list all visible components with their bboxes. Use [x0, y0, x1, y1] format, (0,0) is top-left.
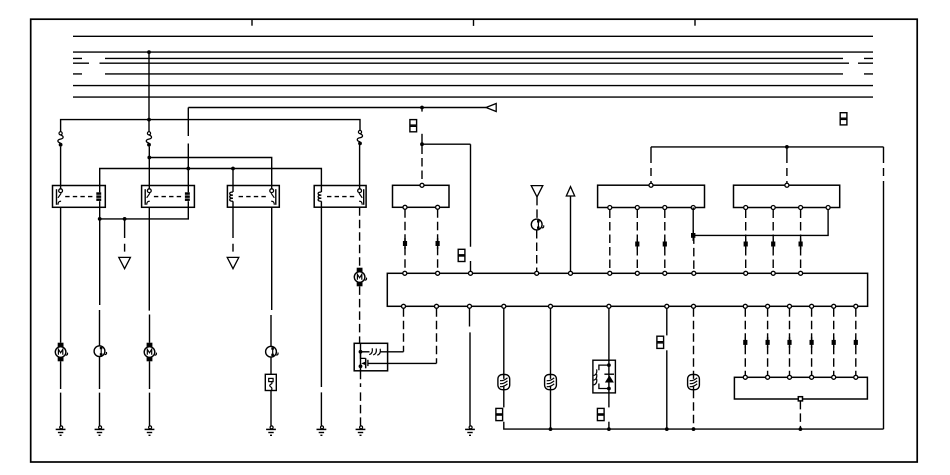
wire controller to ground (dashed): [360, 371, 362, 426]
wire lamp L3 down (dashed): [693, 390, 695, 429]
wire arrow D to sensor (dashed): [536, 197, 538, 219]
wire lamp L2 down: [550, 390, 552, 429]
splice mark: [664, 239, 666, 250]
pin U3-4: [826, 206, 830, 210]
wire ECU to lamp L1: [503, 308, 505, 374]
pin U1 top: [420, 183, 424, 187]
wire ECU to diode box: [608, 308, 610, 360]
ground G3: [145, 426, 155, 435]
splice mark: [855, 337, 857, 348]
servo box U3: [734, 185, 840, 207]
wire right trunk down: [883, 147, 885, 429]
node coil feed R2: [186, 167, 190, 171]
heater element L2: [545, 375, 557, 390]
wire arrow line drop: [421, 108, 423, 112]
ground G2: [95, 426, 105, 435]
pin U6 top 6: [854, 375, 858, 379]
wire bus line 2: [73, 51, 873, 53]
wire across to ECU pin: [422, 144, 471, 247]
splice mark: [789, 337, 791, 348]
pin U4 top 5: [569, 271, 573, 275]
pin U4 bottom 9: [743, 304, 747, 308]
fuse F1: [58, 132, 63, 147]
pin U4 bottom 7: [665, 304, 669, 308]
node rail junction 4: [692, 427, 696, 431]
splice mark: [745, 239, 747, 250]
wire ECU to lamp L2: [550, 308, 552, 374]
wire R3 coil to arrow C: [232, 207, 234, 251]
wire ECU to controller gate (dashed): [436, 308, 438, 363]
servo box U2: [598, 185, 705, 207]
wire R1 coil down: [100, 207, 189, 219]
wire U2-2 to ECU (dashed): [636, 210, 638, 272]
wire U2-3 to ECU (dashed): [664, 210, 666, 272]
node splice a: [98, 217, 102, 221]
wire R1 switch to motor M1: [60, 207, 62, 425]
wire bus line 7: [73, 96, 873, 98]
node rail junction 5: [799, 427, 803, 431]
wire diode box down: [608, 393, 610, 408]
pin U1 bottom 1: [403, 205, 407, 209]
wire to ECU (below CP2): [470, 261, 472, 271]
node splice b: [123, 217, 127, 221]
wire motor M3 to controller (dashed): [359, 286, 361, 343]
pin U4 top 10: [744, 271, 748, 275]
fuse F2: [146, 132, 151, 147]
wire R3 switch down: [270, 207, 273, 426]
pin U4 top 9: [692, 271, 696, 275]
pin U4 bottom 10: [766, 304, 770, 308]
wire CP6 to bottom rail: [666, 350, 668, 429]
connector pair CP5: [597, 408, 604, 414]
pin U3-3: [799, 206, 803, 210]
wire bottom rail start: [504, 422, 884, 429]
motor M2 (blower): [144, 343, 156, 362]
wire bus line 4: [73, 62, 873, 64]
connector pair CP1: [410, 120, 417, 126]
pin U3-1: [744, 206, 748, 210]
relay R4: [314, 186, 366, 208]
splice mark: [800, 239, 802, 250]
pin U2-2: [635, 206, 639, 210]
pin U4 top 7: [635, 271, 639, 275]
pin U4 top 1: [403, 271, 407, 275]
wire U3-3 to ECU (dashed): [800, 210, 802, 272]
control box U1: [393, 185, 450, 207]
wire splice a to pump P1: [99, 219, 101, 426]
connector arrow A (off-page, pointing left): [486, 104, 496, 112]
connector pair CP3: [840, 113, 847, 119]
ground G5: [317, 426, 327, 435]
motor M1 (blower): [55, 343, 67, 362]
heater element L3: [688, 375, 700, 390]
connector arrow B (off-page): [119, 257, 131, 268]
pin U4 bottom 4: [502, 304, 506, 308]
wire R4 switch to motor M3 (dashed): [359, 207, 361, 267]
splice mark: [404, 238, 406, 249]
wire ECU to display pin 4 (dashed): [811, 308, 813, 375]
node diode top: [607, 363, 611, 367]
wire U2-4 cross-link to U3-4: [693, 208, 828, 236]
splice mark: [744, 337, 746, 348]
pin U2-4: [691, 206, 695, 210]
connector arrow E (up): [566, 187, 574, 196]
node fuse row junction: [147, 118, 151, 122]
pin U4 top 3: [469, 271, 473, 275]
wire ECU to display pin 2 (dashed): [767, 308, 769, 375]
pin U6 top 1: [743, 375, 747, 379]
wire ECU to display pin 6 (dashed): [855, 308, 857, 375]
fuse F3: [357, 130, 362, 145]
wire S1 to ECU (dashed): [536, 230, 538, 271]
wire F1 to relay R1: [60, 147, 62, 189]
wire ECU to display pin 3 (dashed): [789, 308, 791, 375]
node rail junction 1: [549, 427, 553, 431]
pin U4 top 4: [535, 271, 539, 275]
diode/resistor unit D1: [593, 360, 616, 393]
wire to connector arrow A: [188, 108, 486, 169]
pump P2: [266, 346, 278, 357]
splice mark: [833, 337, 835, 348]
wire fuse feed row: [61, 120, 360, 132]
connector arrow C (off-page): [227, 257, 239, 268]
pin U6 top 5: [832, 375, 836, 379]
display unit U6: [734, 377, 867, 399]
node junction: [420, 142, 424, 146]
node controller drain: [359, 350, 363, 354]
wire drop to box U3: [786, 147, 788, 183]
pin U4 bottom 2: [435, 304, 439, 308]
wire controller resistor out: [380, 351, 404, 353]
wire F3 to relay R4: [359, 145, 361, 189]
wire branch to R3 coil: [232, 169, 234, 186]
pin U4 bottom 11: [788, 304, 792, 308]
relay R3: [227, 186, 279, 208]
pin U4 top 8: [663, 271, 667, 275]
in-line connector S1: [531, 219, 543, 230]
ECU / amplifier box U4: [387, 273, 867, 306]
wire right feed top: [651, 146, 884, 148]
wire R2 switch to motor M2: [148, 207, 150, 425]
pin U4 bottom 6: [607, 304, 611, 308]
wire F2 to relay R2: [148, 147, 150, 189]
wire U1-2 to ECU (dashed): [437, 209, 439, 271]
pin U6 bottom: [798, 397, 802, 401]
pin U4 top 6: [608, 271, 612, 275]
splice mark: [636, 239, 638, 250]
pin U4 bottom 14: [854, 304, 858, 308]
splice mark: [437, 238, 439, 249]
thermistor T1 (boxed): [265, 374, 276, 390]
pin U6 top 3: [788, 375, 792, 379]
wire U2-1 to ECU (dashed): [609, 210, 611, 272]
pin U6 top 2: [766, 375, 770, 379]
ground G4: [266, 426, 276, 435]
wire splice b to arrow B: [124, 219, 126, 252]
wire R4 coil to ground: [320, 207, 322, 426]
pin U4 bottom 5: [549, 304, 553, 308]
wire controller gate out: [368, 362, 437, 364]
node cross-link junction: [692, 230, 694, 241]
wire to control box U1: [421, 134, 423, 144]
splice mark: [767, 337, 769, 348]
splice mark: [811, 337, 813, 348]
node F2 branch: [147, 156, 151, 160]
node rail junction 2: [607, 427, 611, 431]
wire bus line 1: [73, 35, 873, 37]
pin U4 top 2: [436, 271, 440, 275]
connector pair CP6: [657, 336, 664, 342]
pin U4 bottom 1: [402, 304, 406, 308]
wire ECU pin3 to ground: [469, 308, 472, 426]
wire U6 to bottom rail (dashed): [799, 401, 801, 429]
ground G1: [56, 426, 66, 435]
wire ECU pin7 down: [666, 308, 668, 335]
wire arrow E to ECU: [570, 196, 572, 271]
node rail junction 3: [665, 427, 669, 431]
wire relay coil feed: [100, 169, 322, 186]
wire ECU to display pin 1 (dashed): [744, 308, 746, 375]
heater element L1: [498, 375, 510, 390]
wire U3-2 to ECU (dashed): [772, 210, 774, 272]
pump P1: [94, 346, 106, 357]
node coil feed R3: [231, 167, 235, 171]
splice mark: [772, 239, 774, 250]
wire ECU to lamp L3 (dashed): [693, 308, 695, 374]
pin U3 top: [785, 183, 789, 187]
connector pair CP4: [496, 408, 503, 414]
relay R2: [142, 186, 195, 208]
node arrow line junction: [420, 106, 424, 110]
pin U4 bottom 8: [692, 304, 696, 308]
wire bus drop to fuse F2: [148, 52, 150, 132]
blower controller U5: [354, 343, 387, 371]
wire F2 branch to relay R3: [149, 158, 271, 189]
pin U3-2: [771, 206, 775, 210]
wire U2-4 to ECU (dashed): [693, 235, 695, 271]
connector pair CP2: [458, 249, 465, 255]
pin U4 bottom 13: [832, 304, 836, 308]
pin U1 bottom 2: [436, 205, 440, 209]
wire U1-1 to ECU (dashed): [404, 209, 406, 271]
ground G6: [356, 426, 366, 435]
wire ECU to controller (dashed): [403, 308, 405, 352]
node controller source: [359, 364, 363, 368]
wire bus line 3: [73, 57, 873, 59]
pin U2-1: [608, 206, 612, 210]
wire to bottom rail: [608, 422, 610, 429]
node right feed junction: [785, 145, 789, 149]
pin U4 top 11: [771, 271, 775, 275]
wire into control box U1 (dashed): [421, 146, 423, 184]
pin U4 top 12: [799, 271, 803, 275]
relay R1: [53, 186, 106, 208]
connector arrow D (from other page): [531, 186, 543, 197]
wire drop to box U2: [650, 147, 652, 183]
pin U4 bottom 3: [468, 304, 472, 308]
motor M3 (auxiliary): [354, 268, 366, 287]
wire branch to R2 coil: [187, 169, 189, 186]
pin U2 top: [649, 183, 653, 187]
node bus junction: [147, 50, 151, 54]
wire U3-1 to ECU (dashed): [745, 210, 747, 272]
wire ECU to display pin 5 (dashed): [833, 308, 835, 375]
ground G7: [465, 426, 475, 435]
node diode bottom: [607, 387, 611, 391]
pin U2-3: [663, 206, 667, 210]
pin U4 bottom 12: [810, 304, 814, 308]
wire lamp L1 down: [503, 390, 505, 408]
pin U6 top 4: [810, 375, 814, 379]
wire bus line 5: [73, 73, 873, 75]
wire bus line 6: [73, 85, 873, 87]
